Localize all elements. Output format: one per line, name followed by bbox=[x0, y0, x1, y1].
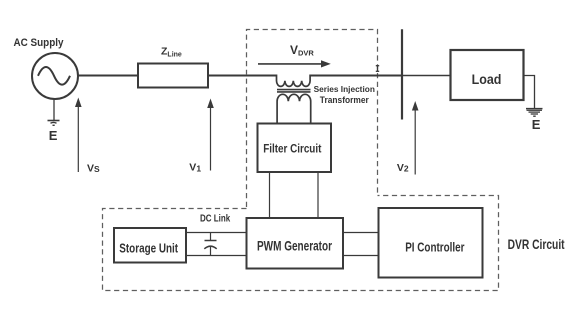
svg-text:PWM Generator: PWM Generator bbox=[257, 238, 333, 253]
wire PWM to PI bottom bbox=[343, 255, 379, 257]
svg-text:V2: V2 bbox=[397, 162, 409, 174]
arrow V1 bbox=[207, 99, 214, 171]
DVR Circuit dashed enclosure (bottom) bbox=[103, 196, 499, 291]
storage unit block bbox=[114, 228, 186, 263]
wire transformer to bus bbox=[310, 75, 402, 77]
wire source to Z_Line bbox=[78, 75, 139, 77]
PWM generator block bbox=[247, 218, 344, 269]
label Series Injection Transformer bbox=[314, 84, 375, 105]
wire Z_Line to transformer bbox=[208, 75, 277, 77]
wire load to ground bbox=[524, 76, 535, 109]
PI controller block bbox=[379, 208, 483, 278]
svg-text:DVR Circuit: DVR Circuit bbox=[508, 236, 565, 252]
capacitor DC link bbox=[204, 233, 216, 256]
svg-text:Filter Circuit: Filter Circuit bbox=[263, 141, 321, 155]
svg-text:Load: Load bbox=[472, 71, 502, 87]
wire DC bus bottom bbox=[186, 255, 247, 257]
arrow V2 bbox=[412, 101, 419, 175]
arrow Vs bbox=[75, 98, 82, 173]
svg-text:E: E bbox=[49, 128, 58, 143]
svg-text:V1: V1 bbox=[189, 162, 201, 174]
ground (load) bbox=[526, 109, 543, 117]
AC source circle with sine bbox=[32, 53, 78, 99]
svg-text:Transformer: Transformer bbox=[320, 95, 370, 105]
transformer T1 core bbox=[277, 90, 311, 92]
wire filter to PWM left bbox=[269, 172, 271, 218]
svg-text:E: E bbox=[532, 117, 541, 132]
transformer T1 primary winding bbox=[277, 75, 311, 87]
svg-text:PI Controller: PI Controller bbox=[405, 239, 464, 254]
svg-text:Series Injection: Series Injection bbox=[314, 84, 375, 94]
svg-text:VS: VS bbox=[87, 162, 100, 174]
node I tick bbox=[376, 66, 379, 72]
filter block bbox=[258, 124, 332, 173]
load block bbox=[451, 50, 524, 100]
bus bar bbox=[401, 29, 403, 119]
wire PWM to PI top bbox=[343, 232, 379, 234]
ground (AC supply) bbox=[48, 121, 60, 126]
wire source stem down bbox=[53, 99, 55, 120]
wire DC bus top bbox=[186, 232, 247, 234]
arrow V_DVR bbox=[258, 60, 331, 67]
wire filter to PWM right bbox=[317, 172, 319, 218]
svg-text:Storage Unit: Storage Unit bbox=[119, 240, 178, 255]
wire bus to load bbox=[402, 75, 451, 77]
svg-text:DC Link: DC Link bbox=[200, 212, 230, 224]
transformer T1 secondary winding bbox=[277, 94, 311, 123]
DVR dashed enclosure (top) bbox=[247, 30, 378, 208]
svg-text:AC Supply: AC Supply bbox=[14, 37, 65, 49]
impedance Z_Line bbox=[138, 64, 208, 88]
